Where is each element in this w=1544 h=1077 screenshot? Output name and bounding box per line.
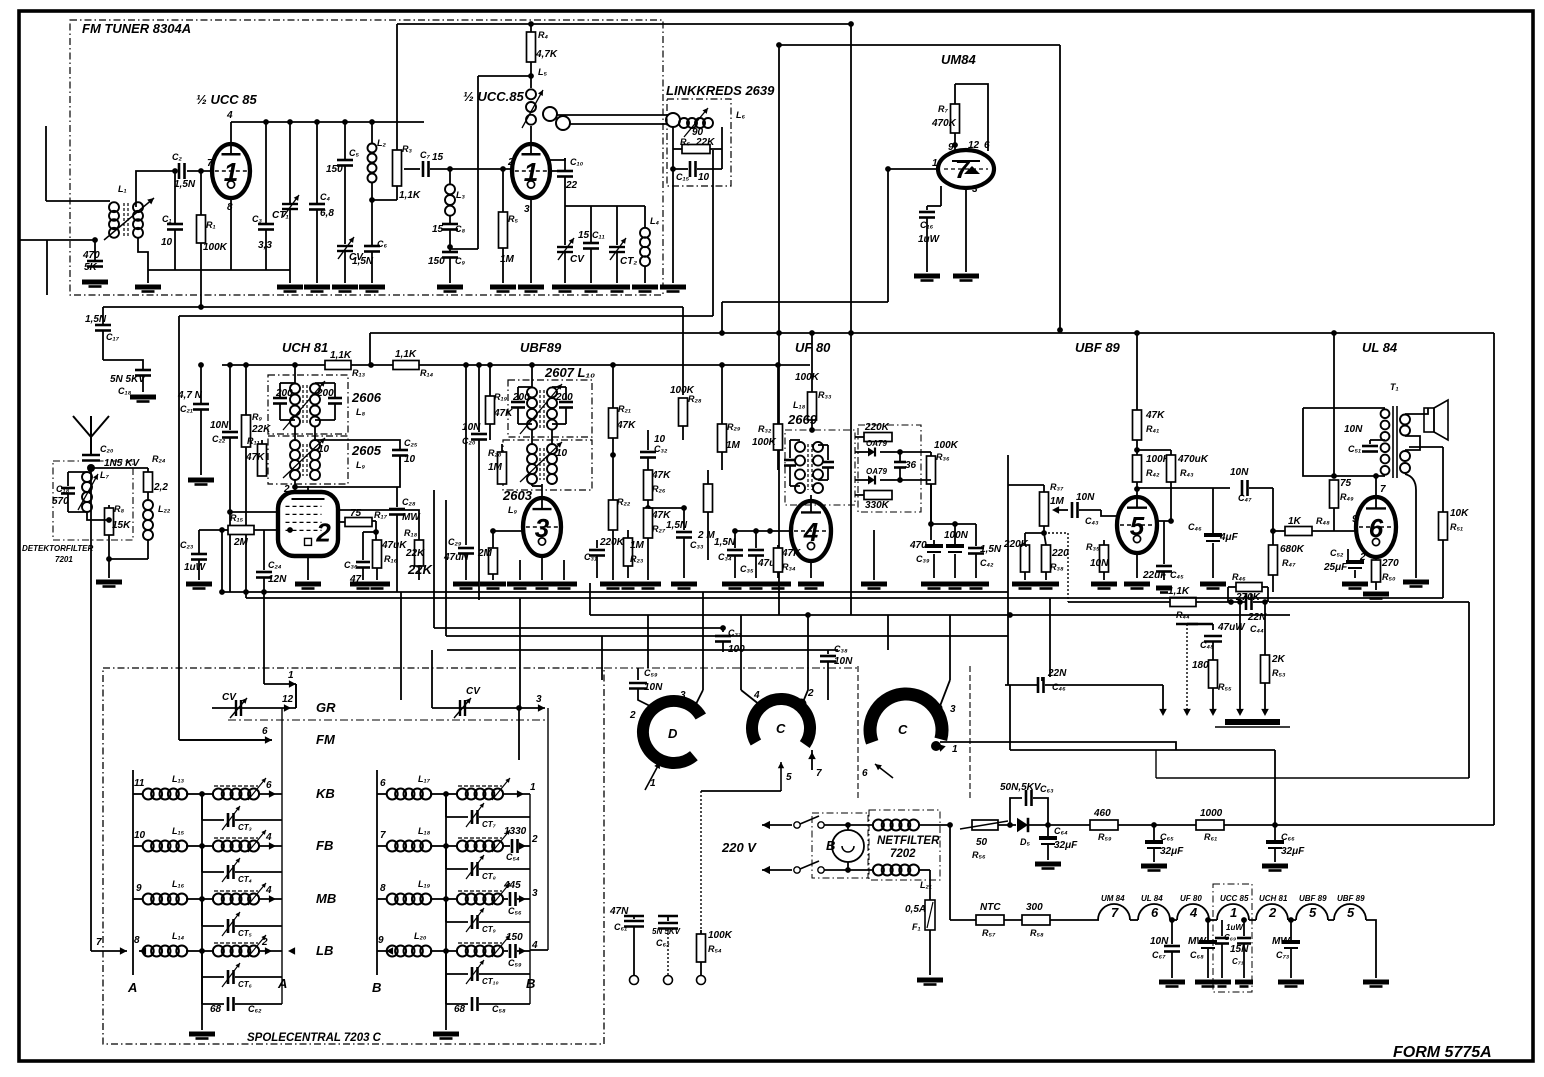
svg-text:R₃₆: R₃₆ (936, 452, 950, 462)
ground CT2 (604, 287, 630, 292)
svg-text:2 M: 2 M (697, 530, 715, 541)
svg-text:L₁₈: L₁₈ (793, 400, 806, 410)
svg-text:CT₆: CT₆ (238, 980, 252, 989)
ground CV1 (332, 287, 358, 292)
wire drop x434 (433, 490, 435, 628)
ground L4 (632, 287, 658, 292)
label KB (316, 786, 335, 801)
svg-text:LINKKREDS 2639: LINKKREDS 2639 (666, 83, 775, 98)
svg-text:L₁₅: L₁₅ (172, 826, 185, 836)
resistor R29 1M (718, 365, 741, 470)
svg-text:C₅₉: C₅₉ (508, 958, 522, 968)
svg-text:4: 4 (226, 110, 233, 121)
wire B+ feed T1 (1331, 330, 1337, 479)
wire grid rail (732, 528, 759, 534)
wire B rail top (530, 708, 548, 950)
svg-text:C₂₃: C₂₃ (180, 540, 194, 550)
svg-text:R₂₁: R₂₁ (618, 404, 631, 414)
resistor R34 47K (774, 545, 802, 578)
svg-text:GR: GR (316, 700, 336, 715)
coil MB r tuned (446, 883, 510, 905)
terminal C61 (630, 976, 639, 985)
wire antenna feed stub (46, 240, 48, 295)
svg-text:100K: 100K (203, 242, 228, 253)
junction C44 nodes (1228, 599, 1268, 605)
svg-text:C₅₁: C₅₁ (1348, 444, 1361, 454)
svg-text:4: 4 (265, 885, 272, 896)
IF transformer 2605 box (268, 436, 348, 484)
svg-text:MW: MW (1188, 936, 1207, 947)
svg-text:1,5N: 1,5N (666, 520, 688, 531)
capacitor C5 150 (326, 122, 359, 175)
svg-text:5: 5 (1347, 905, 1355, 920)
svg-text:NTC: NTC (980, 902, 1001, 913)
svg-text:R₆₁: R₆₁ (1204, 832, 1217, 842)
svg-text:12: 12 (968, 140, 980, 151)
wire R46 bridge (1228, 587, 1268, 602)
ground V1b cathode (518, 287, 544, 292)
resistor R20 1M (488, 444, 507, 484)
capacitor C56 445 (503, 880, 538, 916)
svg-text:470: 470 (82, 250, 100, 261)
ground C65 (1141, 866, 1167, 871)
label FM TUNER 8304A (82, 21, 191, 36)
capacitor C15 10 (673, 149, 722, 183)
svg-text:CT₇: CT₇ (482, 820, 497, 829)
wire L7 to R8 (87, 512, 112, 523)
resistor R38 220 (1042, 533, 1070, 580)
wire drop x179 (178, 316, 180, 740)
ground C71 (1235, 982, 1253, 987)
FM tuner enclosure box (70, 20, 663, 295)
svg-text:C₆₁: C₆₁ (614, 922, 627, 932)
svg-text:5: 5 (786, 772, 792, 783)
capacitor C1 10 (161, 171, 183, 270)
capacitor C3 3,3 (252, 122, 274, 270)
wire ant to R24 (91, 467, 148, 469)
capacitor C21 4,7N (177, 362, 209, 475)
coil L13 (133, 774, 202, 800)
capacitor det mid (818, 445, 834, 480)
wafer C2 pin1 (931, 741, 958, 755)
resistor R8 15K (105, 504, 132, 559)
resistor R15 2M (222, 513, 278, 548)
svg-text:FB: FB (316, 838, 333, 853)
ground C6 (359, 287, 385, 292)
resistor R58 300 (1022, 902, 1050, 938)
coil 2607 secondary (547, 387, 573, 429)
coil L3 (445, 166, 465, 216)
svg-text:150: 150 (506, 932, 523, 943)
ground R38b (1033, 584, 1059, 589)
wire antenna to LB (90, 468, 92, 951)
svg-text:2: 2 (315, 518, 331, 548)
coil T1 secondary lower (1400, 451, 1410, 473)
svg-text:180: 180 (1192, 660, 1209, 671)
resistor R23 1M (624, 530, 645, 578)
svg-text:UBF 89: UBF 89 (1075, 340, 1121, 355)
svg-text:300: 300 (1026, 902, 1043, 913)
capacitor C51 10N (1344, 424, 1385, 454)
coil L17 (377, 774, 446, 800)
svg-text:R₇: R₇ (938, 104, 948, 114)
capacitor C43 10N (1052, 492, 1117, 526)
resistor R36 100K (927, 440, 959, 540)
svg-text:D₅: D₅ (1020, 837, 1030, 847)
capacitor C58 68 (446, 974, 530, 1015)
resistor R9 22K (242, 365, 272, 598)
label B left (372, 980, 381, 995)
wire tube3 grid row (490, 528, 523, 534)
ground C34 (722, 584, 748, 589)
coil L1 primary (109, 184, 127, 238)
svg-text:47K: 47K (1145, 410, 1165, 421)
wire R37 feed (1008, 455, 1044, 592)
svg-text:A: A (277, 976, 287, 991)
svg-text:1000: 1000 (1200, 808, 1223, 819)
svg-text:R₁₇: R₁₇ (374, 510, 388, 520)
svg-text:C₁: C₁ (162, 214, 172, 224)
coil KB tuned (202, 778, 282, 800)
switch contact lower (794, 861, 824, 873)
heater cap C69 (1215, 920, 1244, 978)
wire 2607-2603 (532, 430, 552, 444)
capacitor C2 1,5N (172, 152, 196, 190)
heater UBF 89 (1296, 894, 1328, 920)
svg-text:C₄₈: C₄₈ (1200, 640, 1214, 650)
svg-text:2: 2 (261, 937, 268, 948)
svg-text:R₁₁: R₁₁ (247, 436, 260, 446)
svg-text:FM: FM (316, 732, 336, 747)
svg-text:F₁: F₁ (912, 922, 921, 932)
svg-text:7: 7 (1111, 905, 1119, 920)
capacitor C59b 150 (506, 932, 538, 968)
heater chain joints (1130, 919, 1334, 921)
trimmer CT9 (446, 899, 530, 934)
svg-text:36: 36 (905, 460, 917, 471)
left bank right rail (277, 708, 287, 1004)
svg-text:10N: 10N (1344, 424, 1363, 435)
coil FB tuned (202, 830, 282, 852)
wire 2605 to grid (292, 456, 400, 490)
heater cap C67 10N (1150, 917, 1180, 978)
capacitor 470/5K (82, 240, 103, 273)
svg-text:1: 1 (224, 157, 238, 187)
coil L14 (139, 931, 202, 957)
resistor R14 1,1K (393, 349, 434, 378)
svg-text:T₁: T₁ (1390, 382, 1399, 392)
label 22K (407, 562, 433, 577)
svg-text:NETFILTER: NETFILTER (877, 835, 940, 847)
ground left bank (189, 1004, 215, 1039)
coil MB tuned (202, 883, 282, 905)
junction bus b (287, 119, 293, 125)
svg-text:1: 1 (288, 670, 294, 681)
wire tube4 cathode (810, 561, 812, 578)
ground right bank (433, 1004, 459, 1039)
capacitor C19 1N5KV (82, 444, 140, 469)
svg-text:L₉: L₉ (356, 460, 365, 470)
wire tube2 anode right (550, 158, 565, 160)
svg-text:C₂₀: C₂₀ (100, 444, 114, 454)
wire R8 L22 bottom (106, 540, 148, 562)
svg-text:L₂₂: L₂₂ (158, 504, 171, 514)
trimmer CT4 (202, 846, 282, 884)
svg-text:1uW: 1uW (184, 562, 207, 573)
svg-text:C₃₈: C₃₈ (834, 644, 848, 654)
wire det out (921, 452, 931, 480)
capacitor C54 1330 (504, 826, 538, 862)
capacitor 2606 left (273, 383, 295, 420)
detector filter box (53, 461, 133, 540)
det core (808, 444, 812, 490)
svg-text:220: 220 (1051, 548, 1069, 559)
svg-text:11: 11 (134, 778, 145, 789)
capacitor C38 10N (820, 644, 853, 700)
wafer C1 arrow (778, 762, 792, 790)
resistor R18 22K (404, 524, 425, 580)
svg-text:2: 2 (531, 834, 538, 845)
svg-text:R₉: R₉ (252, 412, 262, 422)
svg-text:R₅₄: R₅₄ (708, 944, 722, 954)
svg-text:C₂₅: C₂₅ (404, 438, 418, 448)
resistor R41 47K (1133, 333, 1166, 455)
wire tube4 grid (759, 528, 790, 534)
svg-text:50: 50 (976, 837, 988, 848)
svg-text:3: 3 (950, 704, 956, 715)
wafer D arrow (645, 762, 660, 790)
svg-text:R₅₁: R₅₁ (1450, 522, 1463, 532)
junction R15 (219, 527, 293, 533)
svg-text:5: 5 (1309, 905, 1317, 920)
junction if2 (243, 362, 249, 368)
svg-text:UBF89: UBF89 (520, 340, 562, 355)
trimmer CT2 (609, 206, 637, 283)
svg-text:MW: MW (1272, 936, 1291, 947)
capacitor C33 1,5N (666, 508, 704, 578)
ground C69 (1213, 982, 1231, 987)
junction bus c (314, 119, 320, 125)
wire R7 top (955, 84, 988, 151)
svg-text:L₁₈: L₁₈ (418, 826, 431, 836)
capacitor C7 15 (404, 150, 456, 177)
wire long y636 (446, 635, 1008, 637)
svg-text:C₂₂: C₂₂ (212, 434, 226, 444)
junction R41 bottom (1134, 447, 1140, 453)
svg-text:6: 6 (862, 768, 868, 779)
wire drop x446 (445, 500, 447, 636)
svg-text:C₂₈: C₂₈ (402, 497, 416, 507)
pin label 4 (226, 110, 233, 121)
svg-text:R₅₅: R₅₅ (1218, 682, 1232, 692)
svg-text:12: 12 (282, 694, 294, 705)
pin label 3 (524, 204, 530, 215)
junction ubf2 (476, 362, 482, 368)
ground heater end (1363, 982, 1389, 987)
capacitor C11 15 (578, 206, 605, 283)
right rail r2 (518, 708, 520, 760)
coil L7 (78, 470, 109, 512)
coil 2605 secondary (310, 440, 330, 480)
svg-text:R₄₆: R₄₆ (1232, 572, 1246, 582)
svg-text:10: 10 (161, 237, 173, 248)
ground C16 (914, 276, 940, 281)
supply wire top (397, 23, 851, 25)
resistor R61 1000 (1196, 808, 1224, 842)
coil 2603 primary (527, 444, 537, 484)
wire heater 1 (1004, 919, 1022, 921)
junction bus e (369, 119, 375, 125)
svg-text:3: 3 (524, 204, 530, 215)
capacitor C39 470 (909, 540, 943, 578)
junction node at L1 bottom (92, 237, 98, 243)
svg-text:25μF: 25μF (1323, 562, 1348, 573)
svg-text:47uK: 47uK (381, 540, 407, 551)
svg-text:1uW: 1uW (918, 234, 941, 245)
svg-text:B: B (372, 980, 381, 995)
svg-text:2607 L₁₀: 2607 L₁₀ (544, 365, 595, 380)
svg-text:2M: 2M (233, 537, 249, 548)
label GR (316, 700, 336, 715)
svg-text:C₆₂: C₆₂ (656, 938, 670, 948)
label L19 2669 (787, 400, 818, 427)
arrow KB right (266, 780, 276, 798)
svg-text:CT₁₀: CT₁₀ (482, 977, 499, 986)
pilot lamp B (826, 830, 864, 862)
svg-text:UM 84: UM 84 (1101, 894, 1125, 903)
svg-text:R₂₂: R₂₂ (617, 497, 631, 507)
capacitor C9 150 (428, 252, 465, 283)
label UL 84 (1362, 340, 1398, 355)
svg-text:4μF: 4μF (1219, 532, 1239, 543)
wire R3 supply drop (396, 24, 398, 122)
junction C8/C9 (447, 230, 453, 252)
resistor R44 1,1K line (1068, 586, 1226, 620)
junction FB r (443, 843, 449, 849)
heater UCH 81 (1256, 894, 1288, 920)
wire tube3 cathode (541, 558, 543, 580)
speaker (1405, 400, 1448, 450)
ground R40 (1091, 584, 1117, 589)
2603 tuning arrow (520, 442, 562, 482)
svg-text:C₅₉: C₅₉ (644, 668, 658, 678)
svg-text:L₅: L₅ (538, 67, 547, 77)
svg-text:L₁₆: L₁₆ (172, 879, 185, 889)
svg-text:B: B (826, 838, 835, 853)
svg-text:R₄₁: R₄₁ (1146, 424, 1159, 434)
svg-text:C₃₃: C₃₃ (690, 540, 704, 550)
junction R29 top (719, 362, 725, 368)
junction y307 (198, 304, 204, 310)
wire GR entry (264, 670, 296, 688)
label 1 wafer D (650, 778, 656, 789)
resistor R30 2M (697, 470, 715, 560)
wire x1187 drop (1186, 624, 1188, 710)
ground C11 (578, 287, 604, 292)
wire drop x741 (740, 615, 742, 690)
wafer C2 contacts (933, 704, 956, 716)
svg-text:2: 2 (507, 157, 514, 168)
svg-text:1: 1 (932, 158, 938, 169)
svg-text:4,7 N: 4,7 N (177, 390, 203, 401)
svg-text:C: C (776, 721, 786, 736)
svg-text:C₈: C₈ (455, 224, 465, 234)
svg-text:5: 5 (1130, 511, 1145, 541)
capacitor C46 4uF (1188, 488, 1239, 578)
wire drop x648 (647, 615, 649, 668)
coil det primary (795, 442, 805, 493)
resistor R57 NTC (976, 902, 1004, 938)
svg-text:L₈: L₈ (356, 407, 365, 417)
svg-text:C₃₅: C₃₅ (740, 564, 754, 574)
wire R39 R38 top (1025, 532, 1044, 534)
junction bus x1137 (1134, 330, 1140, 336)
svg-text:6: 6 (266, 780, 272, 791)
ground C33 (671, 584, 697, 589)
svg-text:100K: 100K (670, 385, 695, 396)
switch contact upper (794, 816, 824, 828)
svg-text:C₄₄: C₄₄ (1250, 624, 1264, 634)
wafer D contacts (629, 690, 699, 721)
svg-text:1M: 1M (1050, 496, 1065, 507)
svg-text:12N: 12N (268, 574, 287, 585)
svg-text:C₅₈: C₅₈ (492, 1004, 506, 1014)
svg-text:CV: CV (222, 692, 237, 703)
svg-text:6,8: 6,8 (320, 208, 334, 219)
tube V3 UBF89 (523, 498, 561, 556)
wire bus y333 (370, 332, 1494, 334)
svg-text:2605: 2605 (351, 443, 382, 458)
coil unit box (103, 668, 604, 1044)
svg-text:9: 9 (136, 883, 142, 894)
capacitor C25 10 (315, 438, 418, 470)
wire drop from R1 area (200, 270, 202, 307)
variable capacitor CV right (432, 686, 522, 718)
svg-text:100K: 100K (795, 372, 820, 383)
svg-text:C₂₁: C₂₁ (180, 404, 193, 414)
svg-text:UM84: UM84 (941, 52, 976, 67)
wire 2606 feed (294, 365, 296, 383)
left rail (132, 770, 134, 975)
pin 2 label (283, 484, 290, 495)
svg-text:220K: 220K (599, 537, 625, 548)
capacitor C45 22uN (1124, 521, 1184, 589)
wire R17 node (372, 521, 379, 535)
svg-text:R₅: R₅ (508, 214, 518, 224)
wire long y628 (434, 625, 726, 631)
pin labels UM84 (932, 140, 990, 195)
wire det to caps (928, 484, 976, 527)
wire drop x1008 (1007, 592, 1009, 685)
wire group top (565, 205, 645, 207)
switch wafer D (643, 701, 701, 763)
svg-text:D: D (668, 726, 678, 741)
wire bus to UF80 (545, 364, 810, 366)
svg-text:1,1K: 1,1K (1168, 586, 1190, 597)
junction C66 (1272, 822, 1278, 828)
wire arrow feed 220 (701, 790, 781, 792)
wire R51 feed (1409, 446, 1443, 448)
trimmer CT8 (446, 846, 530, 881)
svg-text:OA79: OA79 (866, 467, 887, 476)
svg-text:1: 1 (650, 778, 656, 789)
arrow KB r (517, 782, 536, 798)
ground C9 (437, 287, 463, 292)
svg-text:C₄₂: C₄₂ (980, 558, 994, 568)
svg-text:15: 15 (432, 224, 444, 235)
label 2605 L9 (351, 443, 382, 470)
mains arrow upper (762, 821, 792, 829)
